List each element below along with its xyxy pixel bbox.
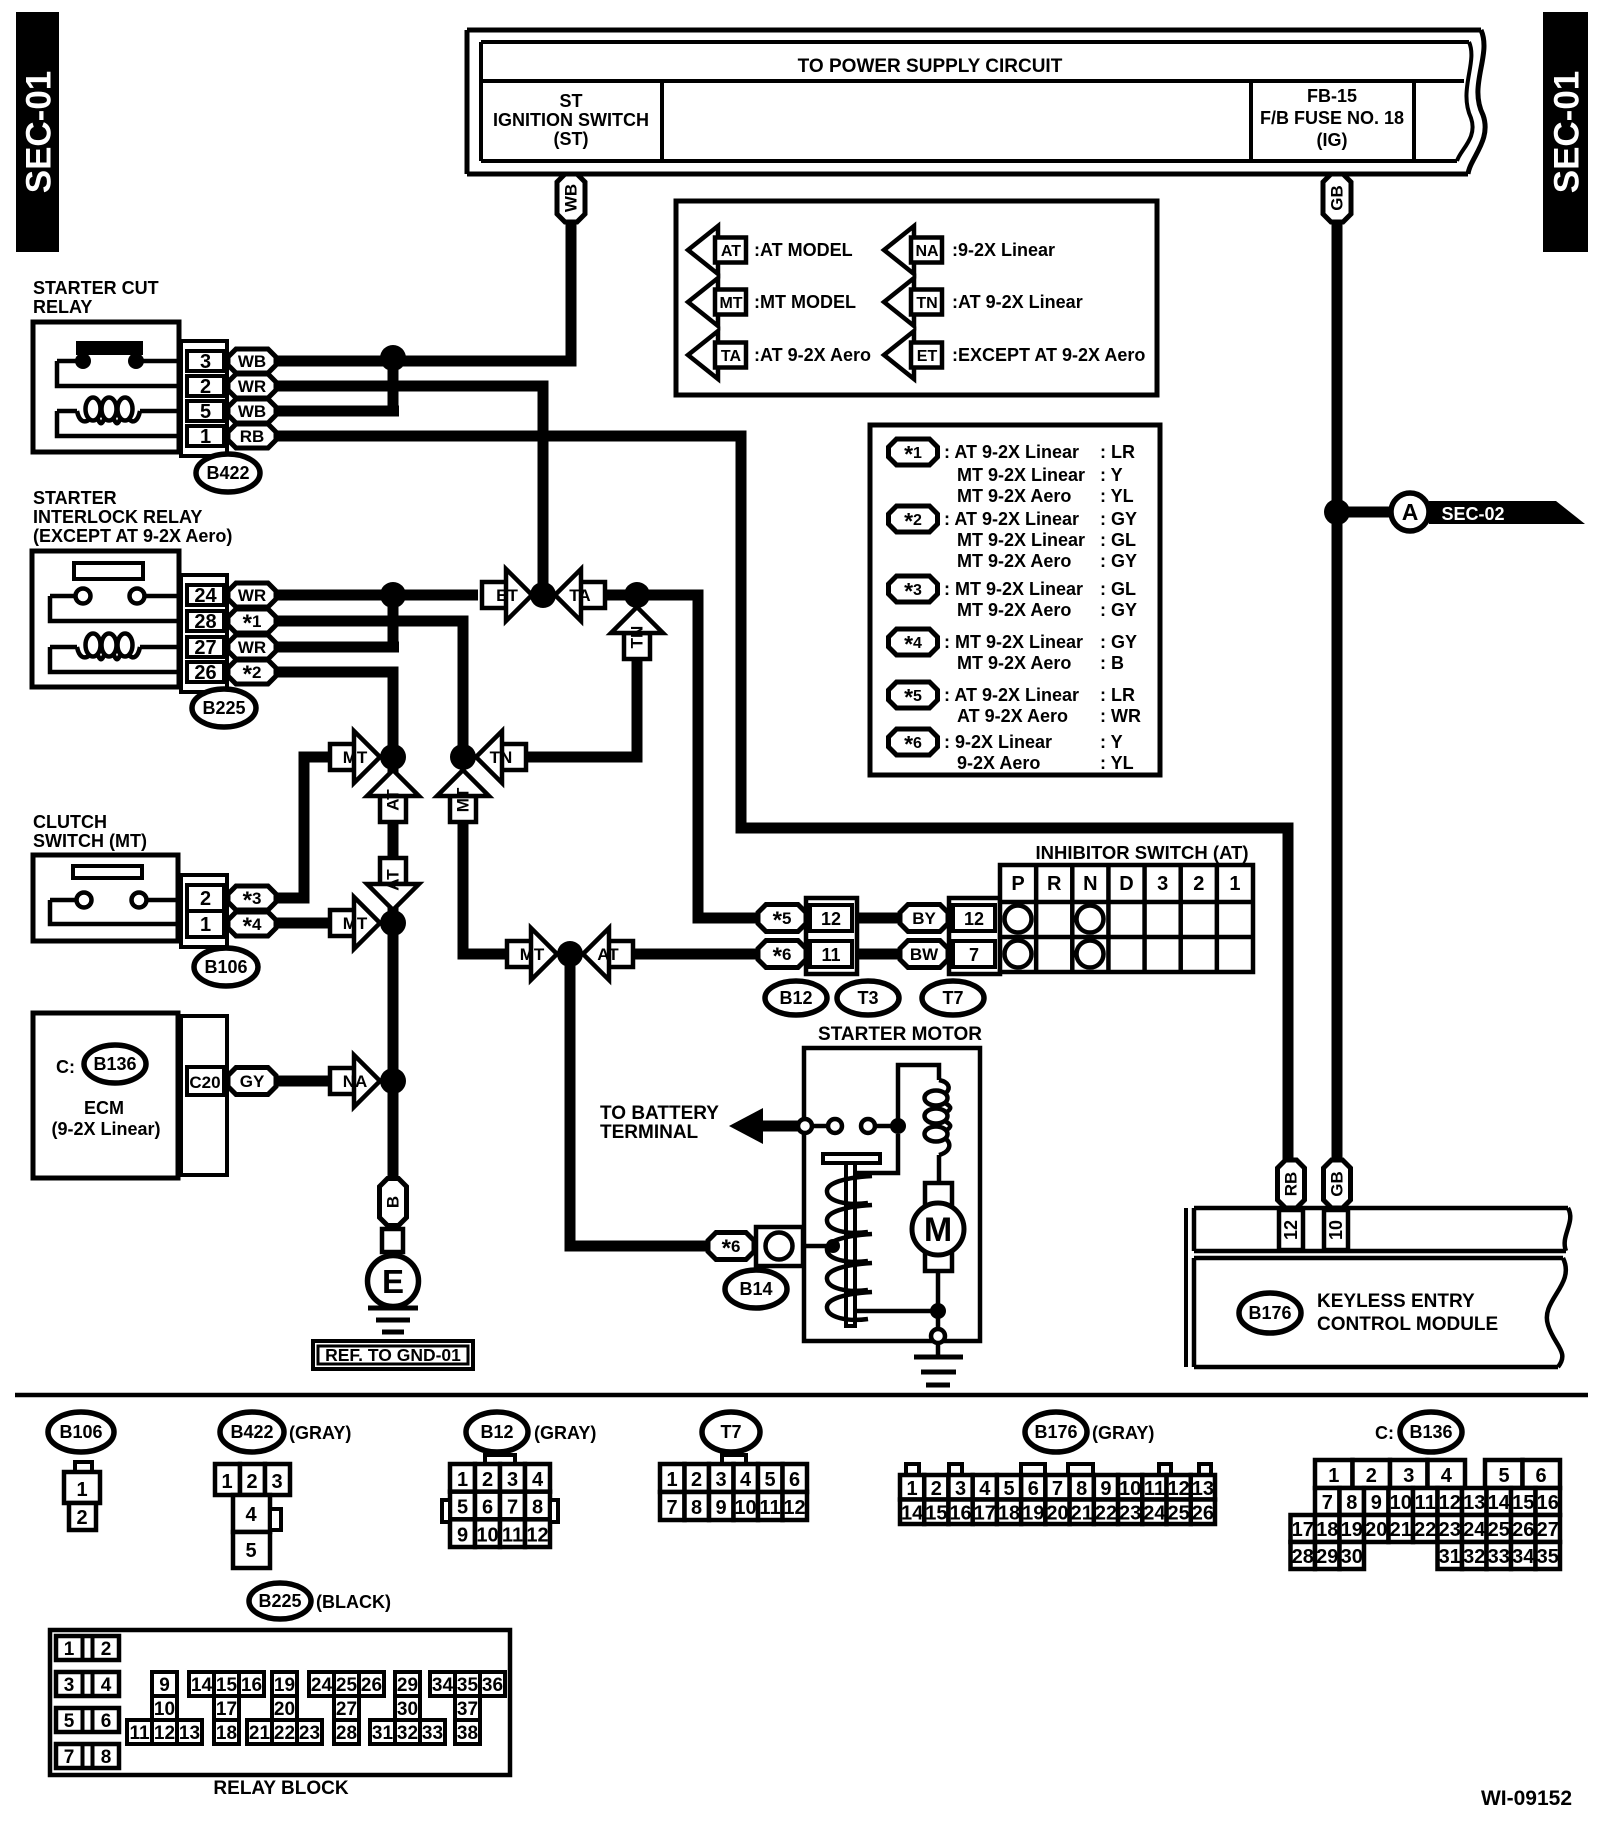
svg-text:(GRAY): (GRAY) [289,1423,351,1443]
svg-text:2: 2 [246,1471,257,1493]
svg-text:ECM: ECM [84,1098,124,1118]
svg-text:26: 26 [1512,1519,1534,1541]
svg-text::AT 9-2X Linear: :AT 9-2X Linear [952,292,1083,312]
svg-text:1: 1 [200,914,211,936]
svg-text:22: 22 [274,1723,295,1744]
svg-text:RELAY: RELAY [33,297,92,317]
svg-text:: Y: : Y [1100,732,1123,752]
svg-text:MT 9-2X Aero: MT 9-2X Aero [957,600,1071,620]
svg-text:7: 7 [1322,1492,1333,1514]
svg-text:25: 25 [1168,1503,1190,1525]
svg-text:6: 6 [1028,1478,1039,1500]
svg-text:B: B [384,1196,403,1208]
svg-text:INHIBITOR SWITCH (AT): INHIBITOR SWITCH (AT) [1035,842,1248,863]
svg-text:R: R [1047,873,1062,895]
svg-text:: Y: : Y [1100,465,1123,485]
svg-text:9: 9 [1371,1492,1382,1514]
svg-text:TN: TN [916,295,937,312]
svg-text:12: 12 [526,1524,548,1546]
svg-text:C:: C: [1375,1423,1394,1443]
svg-text:B106: B106 [204,957,247,977]
svg-text:STARTER CUT: STARTER CUT [33,278,159,298]
svg-text:MT 9-2X Aero: MT 9-2X Aero [957,551,1071,571]
svg-text:C:: C: [56,1057,75,1077]
svg-text:6: 6 [789,1469,800,1491]
svg-text:5: 5 [245,1540,256,1562]
svg-text:TN: TN [490,748,513,767]
svg-text:: LR: : LR [1100,442,1135,462]
svg-text:17: 17 [216,1699,237,1720]
svg-text:MT 9-2X Linear: MT 9-2X Linear [957,465,1085,485]
svg-text:9: 9 [457,1524,468,1546]
svg-text:(GRAY): (GRAY) [534,1423,596,1443]
svg-text:(ST): (ST) [554,129,589,149]
svg-text:21: 21 [1071,1503,1093,1525]
svg-text:11: 11 [129,1723,150,1744]
svg-text:P: P [1011,873,1024,895]
svg-text:STARTER: STARTER [33,488,117,508]
svg-text:4: 4 [245,1504,257,1526]
svg-text:20: 20 [274,1699,295,1720]
svg-text:: GL: : GL [1100,579,1136,599]
svg-text:RELAY BLOCK: RELAY BLOCK [213,1778,348,1799]
svg-text:B12: B12 [779,988,812,1008]
svg-text:7: 7 [666,1497,677,1519]
svg-text:2: 2 [482,1469,493,1491]
svg-text:5: 5 [64,1711,75,1732]
svg-text:MT: MT [454,787,473,812]
svg-text:SWITCH (MT): SWITCH (MT) [33,831,147,851]
svg-text:E: E [382,1263,404,1300]
svg-text:: GY: : GY [1100,551,1137,571]
svg-text:6: 6 [482,1497,493,1519]
svg-text:SEC-01: SEC-01 [1548,71,1587,194]
svg-text:16: 16 [949,1503,971,1525]
svg-text:ET: ET [496,586,518,605]
svg-text:10: 10 [1119,1478,1141,1500]
svg-text:ST: ST [559,91,582,111]
svg-text:WB: WB [238,352,266,371]
svg-text:33: 33 [1488,1546,1510,1568]
svg-text:1: 1 [221,1471,232,1493]
svg-text:A: A [1402,499,1419,525]
svg-text:1: 1 [457,1469,468,1491]
svg-text:3: 3 [1403,1465,1414,1487]
svg-text:3: 3 [271,1471,282,1493]
svg-text:(9-2X Linear): (9-2X Linear) [51,1119,160,1139]
svg-text:15: 15 [216,1675,238,1696]
svg-text:15: 15 [925,1503,947,1525]
svg-text:INTERLOCK RELAY: INTERLOCK RELAY [33,507,202,527]
svg-text:: YL: : YL [1100,486,1134,506]
svg-text:RB: RB [240,427,265,446]
svg-text:NA: NA [343,1072,368,1091]
svg-text:GB: GB [1328,1171,1347,1197]
svg-text:2: 2 [1193,873,1204,895]
svg-text:23: 23 [299,1723,320,1744]
svg-text:18: 18 [998,1503,1020,1525]
svg-text:: 9-2X Linear: : 9-2X Linear [944,732,1052,752]
svg-text:4: 4 [101,1675,112,1696]
svg-text:B136: B136 [93,1054,136,1074]
svg-text:2: 2 [1366,1465,1377,1487]
svg-text:5: 5 [764,1469,775,1491]
svg-text:AT: AT [384,789,403,811]
svg-text:: YL: : YL [1100,753,1134,773]
svg-text:27: 27 [194,637,216,659]
svg-text:3: 3 [64,1675,75,1696]
svg-text:8: 8 [691,1497,702,1519]
svg-text::EXCEPT AT 9-2X Aero: :EXCEPT AT 9-2X Aero [952,345,1145,365]
svg-text:: GY: : GY [1100,632,1137,652]
svg-text:5: 5 [200,401,211,423]
svg-text:27: 27 [1537,1519,1559,1541]
svg-text:: MT 9-2X Linear: : MT 9-2X Linear [944,579,1083,599]
svg-text:(GRAY): (GRAY) [1092,1423,1154,1443]
svg-text:: AT 9-2X Linear: : AT 9-2X Linear [944,509,1079,529]
svg-text:2: 2 [200,376,211,398]
svg-text:IGNITION SWITCH: IGNITION SWITCH [493,110,649,130]
svg-text:34: 34 [1512,1546,1535,1568]
svg-text:TN: TN [628,626,647,649]
svg-text:MT: MT [343,914,368,933]
svg-text:F/B FUSE NO. 18: F/B FUSE NO. 18 [1260,108,1404,128]
svg-text:WI-09152: WI-09152 [1481,1787,1572,1810]
svg-text:1: 1 [666,1469,677,1491]
svg-text:MT 9-2X Linear: MT 9-2X Linear [957,530,1085,550]
svg-text:: WR: : WR [1100,706,1141,726]
svg-text:4: 4 [740,1469,752,1491]
svg-text:CLUTCH: CLUTCH [33,812,107,832]
svg-text:11: 11 [1415,1492,1436,1514]
svg-text:15: 15 [1512,1492,1534,1514]
svg-text:STARTER MOTOR: STARTER MOTOR [818,1024,982,1045]
svg-text:27: 27 [336,1699,357,1720]
svg-text:7: 7 [507,1497,518,1519]
svg-text:WR: WR [238,586,266,605]
svg-text:12: 12 [964,909,984,929]
svg-text:TA: TA [569,586,590,605]
svg-text:AT: AT [597,945,619,964]
svg-text:21: 21 [1390,1519,1412,1541]
svg-text:17: 17 [1292,1519,1314,1541]
svg-text:11: 11 [502,1524,523,1546]
svg-text:24: 24 [1463,1519,1486,1541]
svg-text:3: 3 [955,1478,966,1500]
svg-text:SEC-02: SEC-02 [1441,504,1504,524]
svg-text:30: 30 [1341,1546,1363,1568]
svg-text:MT 9-2X Aero: MT 9-2X Aero [957,653,1071,673]
svg-text:(BLACK): (BLACK) [316,1592,391,1612]
svg-text:10: 10 [154,1699,175,1720]
svg-text:3: 3 [1157,873,1168,895]
svg-text:12: 12 [821,909,841,929]
svg-text:19: 19 [1341,1519,1363,1541]
svg-text:24: 24 [1143,1503,1166,1525]
svg-text:23: 23 [1119,1503,1141,1525]
svg-text:14: 14 [191,1675,213,1696]
svg-text:TERMINAL: TERMINAL [600,1122,699,1143]
svg-text:12: 12 [1281,1220,1301,1240]
svg-text::9-2X Linear: :9-2X Linear [952,240,1055,260]
svg-text:AT: AT [384,869,403,891]
svg-text:14: 14 [901,1503,924,1525]
svg-text:B14: B14 [739,1279,772,1299]
svg-text:9-2X Aero: 9-2X Aero [957,753,1040,773]
svg-text:12: 12 [783,1497,805,1519]
svg-text:B176: B176 [1248,1303,1291,1323]
svg-text:WR: WR [238,377,266,396]
svg-text:14: 14 [1488,1492,1511,1514]
svg-text:6: 6 [1535,1465,1546,1487]
svg-text:TO POWER SUPPLY CIRCUIT: TO POWER SUPPLY CIRCUIT [798,56,1063,77]
svg-text:1: 1 [200,426,211,448]
svg-text:AT: AT [721,243,741,260]
svg-text:11: 11 [821,945,840,965]
svg-text:7: 7 [64,1747,75,1768]
svg-text:19: 19 [274,1675,295,1696]
svg-text:MT 9-2X Aero: MT 9-2X Aero [957,486,1071,506]
svg-text:MT: MT [719,295,742,312]
svg-text:24: 24 [194,585,217,607]
svg-text:18: 18 [216,1723,237,1744]
svg-text:GY: GY [240,1072,265,1091]
svg-text:5: 5 [1003,1478,1014,1500]
svg-text:35: 35 [457,1675,479,1696]
svg-text:2: 2 [101,1639,112,1660]
svg-text:: MT 9-2X Linear: : MT 9-2X Linear [944,632,1083,652]
svg-text:REF. TO GND-01: REF. TO GND-01 [325,1345,461,1365]
svg-text:31: 31 [372,1723,394,1744]
svg-text:13: 13 [179,1723,200,1744]
svg-text:4: 4 [532,1469,544,1491]
svg-text:1: 1 [1229,873,1240,895]
svg-text:20: 20 [1365,1519,1387,1541]
svg-text:10: 10 [734,1497,756,1519]
svg-text:WB: WB [238,402,266,421]
svg-text:12: 12 [154,1723,175,1744]
svg-text:GB: GB [1328,185,1347,211]
svg-text:B12: B12 [480,1422,513,1442]
svg-text:8: 8 [1076,1478,1087,1500]
svg-text:8: 8 [532,1497,543,1519]
svg-text:10: 10 [1326,1220,1346,1240]
svg-text:B136: B136 [1409,1422,1452,1442]
svg-text:ET: ET [917,348,938,365]
svg-text:9: 9 [159,1675,170,1696]
svg-text::MT MODEL: :MT MODEL [754,292,856,312]
svg-text:32: 32 [397,1723,418,1744]
svg-text:RB: RB [1282,1172,1301,1197]
svg-text:AT 9-2X Aero: AT 9-2X Aero [957,706,1068,726]
svg-text:T7: T7 [720,1422,741,1442]
svg-text:36: 36 [482,1675,503,1696]
svg-text:17: 17 [974,1503,996,1525]
svg-text:FB-15: FB-15 [1307,86,1357,106]
svg-text:13: 13 [1463,1492,1485,1514]
svg-text:MT: MT [520,945,545,964]
svg-text:34: 34 [432,1675,454,1696]
svg-text:2: 2 [931,1478,942,1500]
svg-text:22: 22 [1414,1519,1436,1541]
svg-text:8: 8 [101,1747,112,1768]
svg-text:12: 12 [1168,1478,1190,1500]
svg-text:6: 6 [101,1711,112,1732]
svg-text:SEC-01: SEC-01 [20,71,59,194]
svg-text:2: 2 [200,888,211,910]
svg-text:25: 25 [1488,1519,1510,1541]
svg-text:37: 37 [457,1699,478,1720]
svg-text:10: 10 [1390,1492,1412,1514]
svg-text:T3: T3 [857,988,878,1008]
svg-text:30: 30 [397,1699,418,1720]
svg-text:1: 1 [64,1639,75,1660]
svg-text:26: 26 [1192,1503,1214,1525]
svg-text:28: 28 [1292,1546,1314,1568]
svg-text:M: M [924,1211,952,1249]
svg-text:: AT 9-2X Linear: : AT 9-2X Linear [944,685,1079,705]
svg-text:: GY: : GY [1100,509,1137,529]
svg-text:3: 3 [200,351,211,373]
svg-text:18: 18 [1316,1519,1338,1541]
svg-text:4: 4 [979,1478,991,1500]
svg-text:D: D [1119,873,1133,895]
svg-text:BW: BW [910,945,939,964]
svg-text:10: 10 [476,1524,498,1546]
svg-text:B176: B176 [1034,1422,1077,1442]
svg-text:(IG): (IG) [1317,130,1348,150]
svg-text:KEYLESS ENTRY: KEYLESS ENTRY [1317,1291,1475,1312]
svg-text:22: 22 [1095,1503,1117,1525]
svg-text::AT MODEL: :AT MODEL [754,240,853,260]
svg-text:23: 23 [1439,1519,1461,1541]
svg-text:T7: T7 [942,988,963,1008]
svg-text:CONTROL MODULE: CONTROL MODULE [1317,1314,1498,1335]
svg-text:29: 29 [1316,1546,1338,1568]
svg-text:32: 32 [1463,1546,1485,1568]
svg-text:(EXCEPT AT 9-2X Aero): (EXCEPT AT 9-2X Aero) [33,526,232,546]
svg-text:12: 12 [1439,1492,1461,1514]
svg-text::AT 9-2X Aero: :AT 9-2X Aero [754,345,871,365]
svg-text:B106: B106 [59,1422,102,1442]
svg-text:1: 1 [1328,1465,1339,1487]
svg-text:: GL: : GL [1100,530,1136,550]
svg-text:B225: B225 [258,1591,301,1611]
svg-text:7: 7 [1052,1478,1063,1500]
svg-text:26: 26 [361,1675,382,1696]
svg-text:24: 24 [311,1675,333,1696]
svg-text:TA: TA [721,348,742,365]
svg-text:20: 20 [1046,1503,1068,1525]
svg-text:28: 28 [194,611,216,633]
svg-text:3: 3 [507,1469,518,1491]
svg-text:MT: MT [343,748,368,767]
svg-text:: B: : B [1100,653,1124,673]
svg-text:9: 9 [1100,1478,1111,1500]
svg-text:31: 31 [1439,1546,1461,1568]
svg-text:: AT 9-2X Linear: : AT 9-2X Linear [944,442,1079,462]
svg-text:7: 7 [969,945,979,965]
svg-text:B422: B422 [230,1422,273,1442]
svg-text:: LR: : LR [1100,685,1135,705]
svg-text:28: 28 [336,1723,357,1744]
svg-text:B422: B422 [206,463,249,483]
svg-text:2: 2 [76,1507,87,1529]
svg-text:C20: C20 [189,1073,220,1092]
svg-text:WB: WB [562,184,581,212]
svg-text:3: 3 [715,1469,726,1491]
svg-text:4: 4 [1441,1465,1453,1487]
svg-text:16: 16 [1537,1492,1559,1514]
svg-text:8: 8 [1346,1492,1357,1514]
svg-text:16: 16 [241,1675,262,1696]
svg-text:33: 33 [422,1723,443,1744]
svg-text:25: 25 [336,1675,358,1696]
svg-text:11: 11 [759,1497,780,1519]
svg-text:: GY: : GY [1100,600,1137,620]
svg-text:N: N [1083,873,1097,895]
svg-text:B225: B225 [202,698,245,718]
svg-text:9: 9 [715,1497,726,1519]
svg-text:WR: WR [238,638,266,657]
svg-text:29: 29 [397,1675,418,1696]
svg-text:11: 11 [1144,1478,1165,1500]
svg-text:13: 13 [1192,1478,1214,1500]
svg-text:BY: BY [912,909,936,928]
svg-text:21: 21 [249,1723,271,1744]
svg-text:35: 35 [1537,1546,1559,1568]
svg-text:5: 5 [457,1497,468,1519]
svg-text:TO BATTERY: TO BATTERY [600,1103,719,1124]
svg-text:26: 26 [194,662,216,684]
svg-text:2: 2 [691,1469,702,1491]
svg-text:19: 19 [1022,1503,1044,1525]
svg-text:1: 1 [76,1479,87,1501]
svg-text:NA: NA [915,243,939,260]
svg-text:5: 5 [1498,1465,1509,1487]
svg-text:1: 1 [907,1478,918,1500]
svg-text:38: 38 [457,1723,478,1744]
